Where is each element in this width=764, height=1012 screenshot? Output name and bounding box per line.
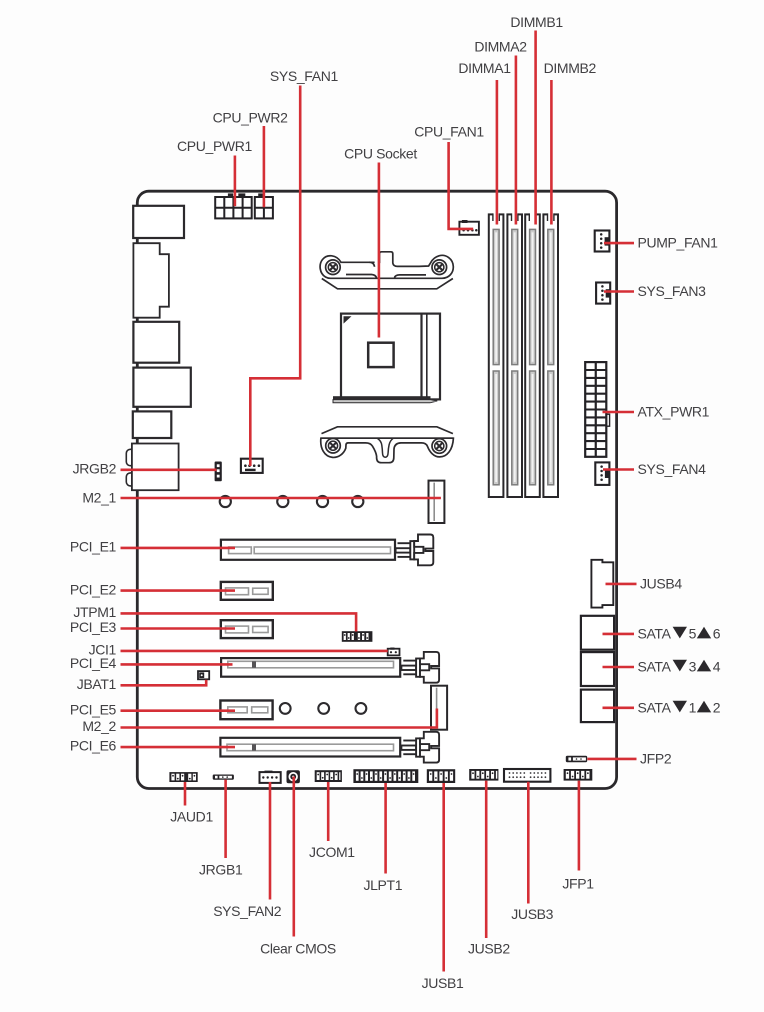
svg-text:JUSB2: JUSB2 [468,941,510,957]
io block 4 [133,368,190,407]
pcie slot PCI_E1 [221,540,395,560]
svg-text:JTPM1: JTPM1 [73,604,116,620]
svg-text:JRGB1: JRGB1 [199,861,243,877]
leader SATA34 [603,666,635,669]
svg-text:SATA: SATA [638,658,672,674]
usb header JUSB1 [427,769,455,783]
leader JBAT1 [121,680,207,686]
io block 6 audio jacks bump B [126,473,137,486]
pcie slot PCI_E6 [220,738,400,757]
svg-text:CPU_FAN1: CPU_FAN1 [414,124,484,140]
svg-text:CPU_PWR1: CPU_PWR1 [177,138,253,154]
leader DIMMB1 [534,31,537,225]
svg-text:PCI_E5: PCI_E5 [70,701,117,717]
io block 6 audio block [132,444,179,491]
svg-text:ATX_PWR1: ATX_PWR1 [638,403,710,419]
leader JAUD1 [184,782,187,806]
pcie latch PCI_E6 [401,732,439,763]
leader Clear CMOS [292,777,295,937]
leader JUSB4 [606,583,637,586]
leader SATA56 [603,633,635,636]
m.2 slot M2_2 [431,686,447,730]
svg-text:PCI_E2: PCI_E2 [70,581,117,597]
svg-text:JUSB3: JUSB3 [511,906,553,922]
audio header JAUD1 [169,772,197,782]
m.2 standoff holes row 2 [280,703,366,714]
leader PCI_E1 [121,547,236,550]
dimm slot DIMMA1 [489,212,504,497]
screw top-left [326,260,341,275]
screw bottom-left [326,438,341,453]
pcie slot PCI_E2 [221,582,273,600]
cpu socket lever [333,396,437,403]
leader CPU_PWR1 [234,156,237,207]
m.2 standoff holes row 1 [220,496,364,507]
usb header JUSB3 [504,769,550,782]
fan header SYS_FAN3 [596,283,610,304]
dimm slot DIMMB1 [525,212,540,497]
svg-text:JUSB4: JUSB4 [640,575,682,591]
svg-text:JCOM1: JCOM1 [309,844,355,860]
leader SYS_FAN2 [269,782,272,900]
front panel header JFP1 [564,769,593,781]
fan header PUMP_FAN1 [595,231,610,252]
front panel header JFP2 [566,756,587,762]
m.2 slot M2_1 [429,481,445,523]
svg-text:M2_1: M2_1 [82,489,116,505]
connector JRGB2 [215,462,222,482]
svg-text:6: 6 [713,625,721,641]
svg-text:SATA: SATA [638,699,672,715]
usb header JUSB2 [469,769,498,781]
svg-text:CPU_PWR2: CPU_PWR2 [213,110,289,126]
svg-text:JFP1: JFP1 [562,876,594,892]
svg-text:JRGB2: JRGB2 [73,461,117,477]
leader SYS_FAN3 [604,290,634,293]
leader ATX_PWR1 [603,411,635,414]
svg-text:DIMMB1: DIMMB1 [510,14,563,30]
svg-text:SYS_FAN3: SYS_FAN3 [638,283,707,299]
pcie slot PCI_E3 [221,620,273,638]
svg-text:JLPT1: JLPT1 [363,877,402,893]
svg-text:4: 4 [713,658,721,674]
svg-text:DIMMA2: DIMMA2 [474,39,527,55]
leader PUMP_FAN1 [604,242,634,245]
clear cmos button [287,770,300,783]
svg-text:JFP2: JFP2 [640,750,672,766]
leader JRGB2 [121,468,217,471]
leader JRGB1 [224,780,227,858]
leader DIMMA1 [496,80,499,225]
usb header JUSB4 [591,560,613,608]
svg-text:Clear CMOS: Clear CMOS [260,941,336,957]
sata ports SATA56 [581,616,614,650]
pcie latch PCI_E4 [401,652,439,683]
connector CPU_PWR1 [215,193,252,218]
pcie slot PCI_E5 [220,701,272,720]
svg-text:M2_2: M2_2 [82,718,116,734]
dimm slot DIMMA2 [507,212,522,497]
leader JCOM1 [327,782,330,841]
screw bottom-right [432,439,447,454]
intrusion header JCI1 [388,648,400,656]
svg-text:SYS_FAN2: SYS_FAN2 [213,903,282,919]
rgb header JRGB1 [213,775,234,780]
leader SATA12 [603,706,635,709]
leader JTPM1 [121,613,357,631]
sata ports SATA34 [581,652,614,686]
cpu retention bracket top [320,252,453,289]
parallel header JLPT1 [353,769,418,783]
leader JLPT1 [384,783,387,874]
svg-text:JUSB1: JUSB1 [422,975,464,991]
leader CPU_PWR2 [263,126,266,207]
leader PCI_E4 [121,663,233,666]
svg-text:PCI_E3: PCI_E3 [70,619,117,635]
leader CPU_FAN1 [449,142,474,229]
battery header JBAT1 [198,671,209,679]
leader JCI1 [121,650,388,653]
svg-text:PCI_E6: PCI_E6 [70,737,117,753]
cpu socket body [341,314,440,400]
leader DIMMA2 [515,56,518,225]
tpm header JTPM1 [342,631,373,642]
fan header SYS_FAN4 [595,462,609,485]
leader SYS_FAN4 [603,468,634,471]
svg-text:PCI_E4: PCI_E4 [70,655,117,671]
pcie latch PCI_E1 [396,535,434,566]
svg-text:2: 2 [713,699,721,715]
svg-text:JAUD1: JAUD1 [170,809,213,825]
board outline [137,191,616,788]
leader JUSB3 [527,782,530,904]
cpu retention bracket bottom [321,427,454,463]
sata ports SATA12 [581,690,614,723]
leader JUSB1 [442,783,445,972]
svg-text:SATA: SATA [638,625,672,641]
io block 3 [133,322,179,363]
serial header JCOM1 [315,770,342,782]
leader JFP1 [578,781,581,871]
leader CPU Socket [378,163,381,338]
io block 6 audio jacks bump A [126,449,137,465]
leader PCI_E6 [121,746,236,749]
svg-text:DIMMA1: DIMMA1 [458,60,511,76]
svg-text:1: 1 [689,699,697,715]
io block 5 [133,411,172,438]
connector CPU_PWR2 [255,193,273,218]
svg-text:PUMP_FAN1: PUMP_FAN1 [638,234,719,250]
svg-text:SYS_FAN4: SYS_FAN4 [638,461,707,477]
power connector ATX_PWR1 [585,362,609,457]
leader PCI_E3 [121,627,236,630]
svg-text:SYS_FAN1: SYS_FAN1 [270,68,339,84]
io block 2 (display connector) [133,243,169,318]
leader PCI_E2 [121,589,236,592]
svg-text:5: 5 [689,625,697,641]
leader M2_1 [121,497,441,500]
connector SYS_FAN1 [241,459,263,473]
svg-text:JBAT1: JBAT1 [77,676,117,692]
svg-text:DIMMB2: DIMMB2 [544,60,597,76]
svg-text:CPU Socket: CPU Socket [344,146,417,162]
leader JUSB2 [485,781,488,938]
connector CPU_FAN1 [459,220,479,235]
svg-text:3: 3 [689,658,697,674]
svg-text:PCI_E1: PCI_E1 [70,538,117,554]
leader SYS_FAN1 [250,86,300,467]
dimm slot DIMMB2 [543,212,558,497]
leader DIMMB2 [550,80,553,225]
screw top-right [432,260,447,275]
fan header SYS_FAN2 [260,771,281,783]
leader PCI_E5 [121,709,236,712]
io block 1 [133,206,184,238]
leader M2_2 [121,709,437,728]
leader JFP2 [587,758,636,761]
pcie slot PCI_E4 [221,658,400,677]
